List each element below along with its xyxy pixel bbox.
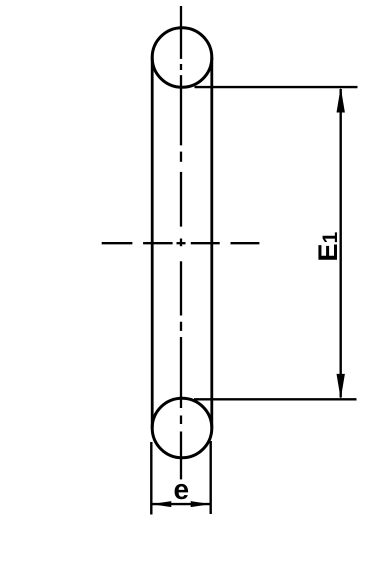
horizontal dash-dot centerline bbox=[102, 242, 260, 244]
dimension line e bbox=[152, 503, 210, 505]
top extension line for E1 bbox=[195, 86, 358, 88]
left tangent outline line bbox=[151, 58, 154, 429]
right tangent outline line bbox=[210, 58, 213, 429]
right extension line for e bbox=[209, 441, 211, 514]
arrowhead e right bbox=[191, 501, 211, 507]
arrowhead E1 top bbox=[337, 87, 345, 112]
top cross-section circle bbox=[152, 28, 212, 88]
bottom extension line for E1 bbox=[194, 398, 357, 400]
arrowhead E1 bottom bbox=[337, 374, 345, 399]
arrowhead e left bbox=[151, 501, 171, 507]
bottom cross-section circle bbox=[152, 398, 212, 458]
label E1 (rotated) bbox=[318, 232, 337, 259]
dimension line E1 bbox=[340, 89, 342, 398]
left extension line for e bbox=[150, 442, 152, 515]
label e bbox=[175, 484, 189, 499]
vertical dash-dot centerline bbox=[180, 6, 182, 479]
